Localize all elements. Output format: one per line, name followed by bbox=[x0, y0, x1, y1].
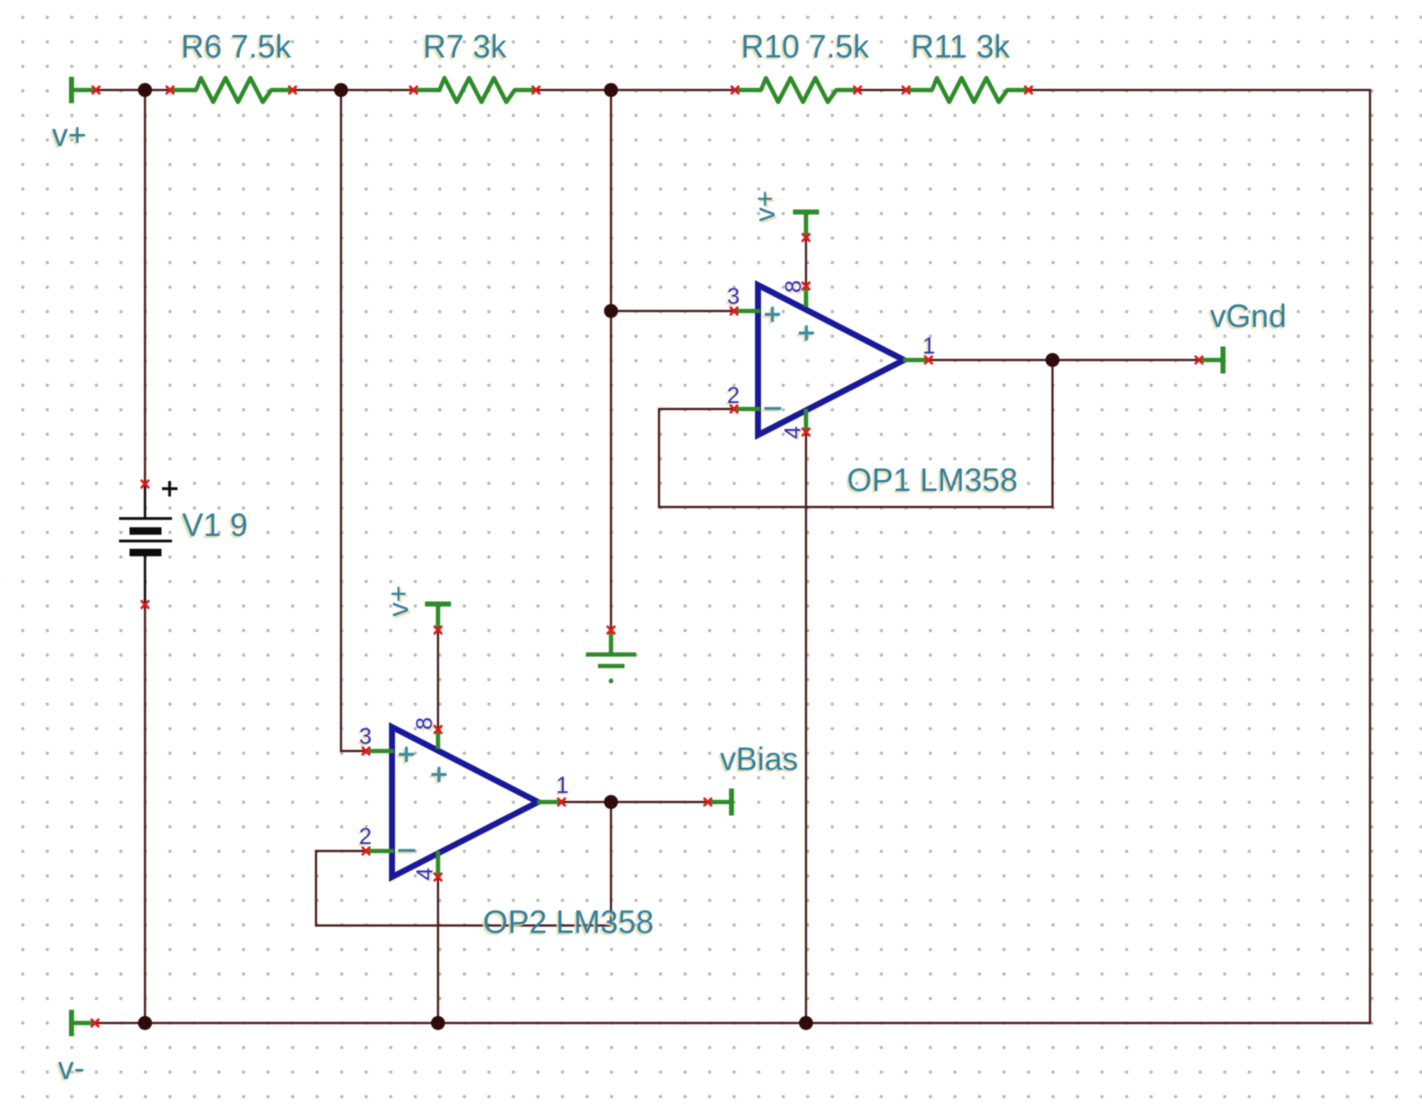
svg-text:OP1 LM358: OP1 LM358 bbox=[847, 462, 1018, 498]
svg-text:v+: v+ bbox=[383, 585, 415, 616]
svg-text:R10 7.5k: R10 7.5k bbox=[741, 29, 870, 65]
svg-text:v+: v+ bbox=[52, 117, 87, 153]
svg-text:v+: v+ bbox=[750, 190, 782, 221]
svg-text:OP2 LM358: OP2 LM358 bbox=[483, 904, 654, 940]
svg-text:v-: v- bbox=[58, 1050, 85, 1086]
svg-text:2: 2 bbox=[727, 382, 740, 408]
svg-text:4: 4 bbox=[780, 426, 806, 439]
svg-text:vBias: vBias bbox=[720, 741, 798, 777]
svg-text:3: 3 bbox=[727, 283, 740, 309]
svg-text:1: 1 bbox=[556, 772, 569, 798]
svg-text:2: 2 bbox=[359, 823, 372, 849]
svg-text:3: 3 bbox=[359, 723, 372, 749]
svg-text:vGnd: vGnd bbox=[1210, 298, 1286, 334]
svg-text:R11 3k: R11 3k bbox=[911, 29, 1011, 65]
svg-text:8: 8 bbox=[411, 717, 437, 730]
svg-text:R6 7.5k: R6 7.5k bbox=[181, 29, 292, 65]
svg-text:R7 3k: R7 3k bbox=[423, 29, 508, 65]
svg-text:1: 1 bbox=[923, 333, 936, 359]
svg-text:V1 9: V1 9 bbox=[182, 507, 248, 543]
